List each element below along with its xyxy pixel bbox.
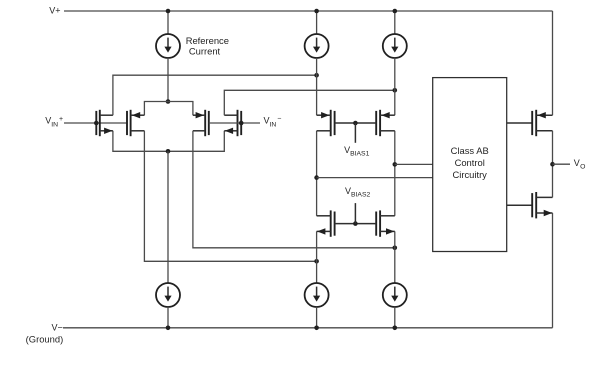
label VO xyxy=(574,158,586,170)
node output junction xyxy=(550,162,555,167)
svg-text:+: + xyxy=(59,116,63,123)
wire Q2 drain to column 2 lower junction xyxy=(144,131,316,261)
wire VBIAS2 gate wire xyxy=(335,223,377,225)
transistor Q8 (cascode NMOS right) xyxy=(376,210,395,236)
svg-text:O: O xyxy=(580,164,585,171)
node folded wire A / column 2 junction xyxy=(314,73,319,78)
wire VIN+ gate wire xyxy=(64,122,127,124)
transistor Q5 (cascode PMOS left) xyxy=(317,110,335,136)
wire VBIAS1 stub xyxy=(354,123,356,143)
node VBIAS1 junction xyxy=(353,121,358,126)
transistor Q2 (input PMOS, VIN+) xyxy=(127,110,144,136)
label VBIAS2 xyxy=(345,186,370,199)
wire Q4 drain to column 3 (folded node B) xyxy=(224,90,394,115)
svg-text:V: V xyxy=(574,158,580,168)
svg-text:IN: IN xyxy=(51,121,58,128)
wire VIN- gate wire xyxy=(209,122,260,124)
node V+/I3 junction xyxy=(393,9,398,14)
transistor Q1 (input NMOS, VIN+) xyxy=(96,110,113,136)
svg-text:Reference: Reference xyxy=(186,35,229,46)
current source I3 xyxy=(383,34,407,58)
svg-text:V+: V+ xyxy=(49,6,60,16)
wire V+ rail to I3 xyxy=(394,11,396,34)
node folded wire B / column 3 junction xyxy=(393,88,398,93)
node V+/I1 junction xyxy=(166,9,171,14)
node right cascode node to Class AB box xyxy=(393,162,398,167)
wire box to Q9 gate xyxy=(507,122,533,124)
power label V+ xyxy=(49,6,60,16)
power label (Ground) xyxy=(26,334,64,345)
node I4/V- junction xyxy=(166,326,171,331)
label VIN+ xyxy=(45,116,63,129)
svg-text:Circuitry: Circuitry xyxy=(453,169,488,180)
wire I4 to V- rail xyxy=(167,307,169,328)
node I6/V- junction xyxy=(393,326,398,331)
label VBIAS1 xyxy=(344,145,369,158)
wire I2 to Q5 source xyxy=(316,58,318,115)
wire left cascode node to box xyxy=(317,177,433,179)
power label V- xyxy=(52,323,63,333)
block U1 Class AB Control Circuitry xyxy=(433,78,507,252)
wire I5 to V- rail xyxy=(316,307,318,328)
transistor Q9 (output PMOS) xyxy=(532,110,552,136)
wire V+ rail to I1 xyxy=(167,11,169,34)
current source I2 xyxy=(305,34,329,58)
svg-text:Control: Control xyxy=(455,157,485,168)
current source I6 xyxy=(383,283,407,307)
wire I6 to V- rail xyxy=(394,307,396,328)
wire I3 to Q6 source xyxy=(394,58,396,115)
label Reference Current xyxy=(186,35,229,57)
svg-text:−: − xyxy=(277,116,281,123)
wire output to VO label xyxy=(553,163,571,165)
node Q3 drain / column 3 junction xyxy=(393,246,398,251)
node N-pair tail junction xyxy=(166,149,171,154)
wire P-pair tail (sources of Q2,Q3) xyxy=(144,102,193,116)
label VIN- xyxy=(264,116,282,129)
node VBIAS2 junction xyxy=(353,221,358,226)
wire Q9 drain to Q10 drain (output node) xyxy=(552,131,554,198)
transistor Q7 (cascode NMOS left) xyxy=(317,210,335,236)
wire V- rail (ground) xyxy=(63,327,553,329)
node I5/V- junction xyxy=(314,326,319,331)
wire Q10 source to V- rail xyxy=(552,213,554,328)
wire N-pair tail (sources of Q1,Q4) xyxy=(113,131,224,152)
svg-text:(Ground): (Ground) xyxy=(26,334,64,345)
svg-text:BIAS2: BIAS2 xyxy=(351,192,370,199)
wire Q1 drain to column 2 (folded node A) xyxy=(113,75,317,115)
transistor Q3 (input PMOS, VIN-) xyxy=(193,110,209,136)
wire V+ rail to I2 xyxy=(316,11,318,34)
wire I1 to P-pair tail xyxy=(167,58,169,102)
label Class AB Control Circuitry xyxy=(451,145,489,180)
transistor Q10 (output NMOS) xyxy=(532,192,552,218)
node left cascode node to Class AB box xyxy=(314,175,319,180)
wire V+ rail xyxy=(64,10,553,12)
node P-pair tail junction xyxy=(166,99,171,104)
wire V+ rail to Q9 source xyxy=(552,11,554,115)
svg-text:Current: Current xyxy=(189,46,221,57)
wire Q5 drain to Q7 drain (left cascode node) xyxy=(316,131,318,216)
wire Q7 source to I5 xyxy=(316,231,318,283)
svg-text:IN: IN xyxy=(270,121,277,128)
wire N-pair tail to I4 xyxy=(167,151,169,283)
svg-text:V−: V− xyxy=(52,323,63,333)
current source I4 (N-pair bias) xyxy=(156,283,180,307)
node VIN- gate junction Q4 xyxy=(239,121,244,126)
wire VBIAS1 gate wire xyxy=(335,122,377,124)
node Q2 drain / column 2 junction xyxy=(314,259,319,264)
node VIN+ gate junction Q1 xyxy=(94,121,99,126)
wire VBIAS2 stub xyxy=(354,203,356,224)
current source I1 (reference current) xyxy=(156,34,180,58)
svg-text:Class AB: Class AB xyxy=(451,145,489,156)
svg-text:BIAS1: BIAS1 xyxy=(350,150,369,157)
transistor Q4 (input NMOS, VIN-) xyxy=(224,110,241,136)
wire right cascode node to box xyxy=(395,163,433,165)
current source I5 xyxy=(305,283,329,307)
transistor Q6 (cascode PMOS right) xyxy=(376,110,395,136)
wire box to Q10 gate xyxy=(507,204,533,206)
node V+/I2 junction xyxy=(314,9,319,14)
wire Q8 source to I6 xyxy=(394,231,396,283)
wire Q6 drain to Q8 drain (right cascode node) xyxy=(394,131,396,216)
wire Q3 drain to column 3 lower junction xyxy=(193,131,395,248)
